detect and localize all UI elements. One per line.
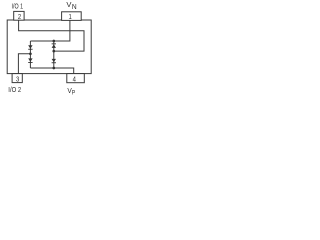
diode D2 left bottom [28, 58, 32, 62]
junction node top of right branch [52, 40, 55, 43]
diode D1 left top [28, 45, 32, 49]
IC body outline [7, 20, 91, 74]
junction node mid of left branch [29, 52, 32, 55]
junction node bottom of right branch [52, 67, 55, 70]
svg-text:4: 4 [73, 76, 76, 84]
pin 3 box [12, 74, 22, 83]
wire left branch vertical [29, 41, 31, 68]
wire bottom rail to pin 4 [30, 68, 73, 74]
svg-text:I/O 1: I/O 1 [12, 3, 24, 11]
wire VN from pin 1 down, top rail to left branch [30, 20, 70, 41]
diode D3 right top (points up) [52, 42, 56, 45]
pin 2 box [14, 11, 24, 20]
svg-text:I/O 2: I/O 2 [8, 86, 21, 94]
svg-text:P: P [72, 90, 76, 97]
pin 1 box [62, 12, 82, 21]
pin 4 box [67, 74, 85, 83]
svg-text:1: 1 [68, 14, 71, 22]
wire I/O2 from pin 3 to left branch mid node [18, 54, 30, 74]
svg-text:3: 3 [16, 76, 19, 84]
diode D4 right bottom [52, 59, 56, 62]
junction node mid of right branch [52, 50, 55, 53]
svg-text:2: 2 [18, 14, 21, 22]
svg-text:N: N [72, 4, 77, 11]
wire I/O1 from pin 2 to right branch mid node [19, 20, 84, 51]
wire right branch vertical [53, 41, 55, 68]
